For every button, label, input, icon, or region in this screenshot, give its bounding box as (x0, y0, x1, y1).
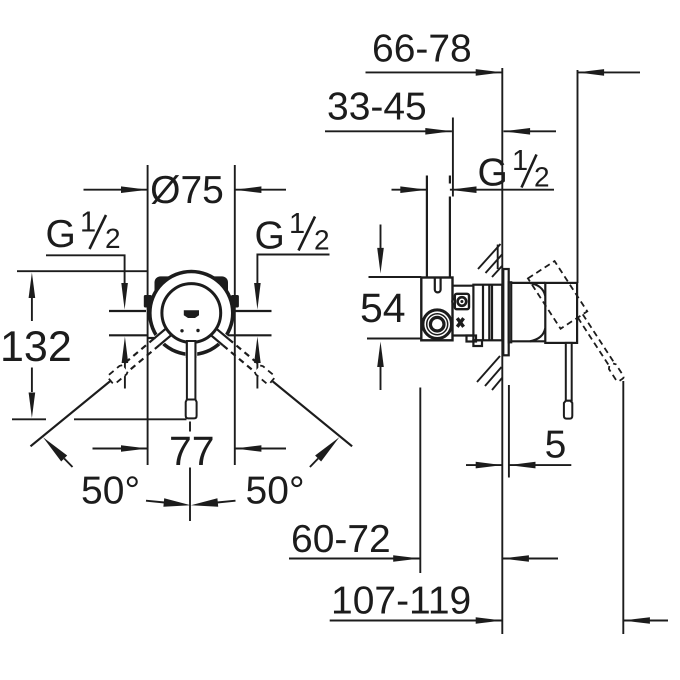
stop screw circle (458, 297, 467, 306)
escutcheon inner circle (162, 284, 221, 343)
svg-text:G: G (255, 215, 285, 258)
dim Ø75 right arrow (235, 186, 286, 193)
lever channel right 50 (208, 326, 229, 347)
dim 132 bottom extension line (12, 418, 187, 420)
svg-text:1: 1 (512, 145, 528, 177)
dim G1/2 pipe left arrow (392, 186, 427, 193)
stop screw square (455, 294, 469, 309)
dim G1/2 pipe right arrow (450, 186, 554, 193)
svg-text:G: G (46, 213, 76, 256)
stop screw dot (460, 300, 463, 303)
angle 50 text left (81, 469, 140, 512)
svg-text:77: 77 (169, 428, 215, 474)
port up arrow left (122, 337, 129, 389)
dim 66-78 right arrow (578, 69, 641, 76)
lever channel left 50 (153, 326, 174, 347)
tube flange line 2 (488, 285, 490, 341)
dim 60-72 extension line (419, 388, 421, 574)
plate front extension line (508, 385, 510, 478)
label G1/2 side text (478, 145, 550, 195)
svg-text:107-119: 107-119 (331, 580, 471, 623)
cartridge mid section bottom (453, 334, 474, 336)
cartridge tube (473, 285, 502, 341)
dim 33-45 left arrow (325, 128, 452, 135)
angle ray right (273, 381, 353, 446)
outlet pipe (427, 176, 450, 278)
svg-text:2: 2 (105, 223, 121, 254)
cartridge center mark (184, 310, 199, 318)
x marking (457, 318, 463, 327)
rough-in box (421, 278, 452, 341)
lever grip (side) (564, 401, 572, 419)
svg-text:1: 1 (80, 207, 96, 239)
mounting bracket (black, behind escutcheon) (155, 276, 229, 310)
dim 60-72 left arrow (289, 555, 420, 562)
svg-text:°: ° (289, 469, 305, 512)
label G1/2 right text (255, 208, 330, 258)
dashed handle block (raised position) (528, 261, 629, 392)
center line below lever (189, 422, 191, 522)
svg-text:5: 5 (545, 424, 567, 467)
dim 132 top extension line (17, 270, 148, 272)
port silhouette line lower-right (228, 334, 272, 336)
trim sleeve (509, 282, 512, 342)
dim 107-119 left arrow (330, 617, 503, 624)
index dot left (180, 329, 183, 332)
escutcheon plate (side) (503, 269, 508, 355)
dim 66-78 right extension line (577, 70, 579, 283)
dim 54 bottom extension line (367, 338, 421, 340)
angle 50 arrows at centerline (146, 498, 236, 506)
dim 5 left arrow (466, 462, 502, 469)
dim Ø75 right extension line (234, 165, 236, 465)
svg-text:33-45: 33-45 (327, 86, 427, 129)
svg-text:132: 132 (0, 323, 72, 371)
port silhouette line upper-left (109, 310, 146, 312)
tube bottom tab (473, 340, 482, 346)
dim 54 arrows (377, 225, 384, 391)
index dot right (196, 329, 199, 332)
dim 54 top extension line (369, 276, 422, 278)
handle body bottom edge (511, 340, 545, 342)
handle front block (545, 283, 577, 343)
wall hatch lower (477, 356, 502, 390)
angle leader arrow right (310, 437, 339, 467)
cartridge mid section top (453, 285, 474, 287)
handle neck curve top (530, 283, 545, 296)
port silhouette line lower-left (109, 334, 148, 336)
stop screw boss bump (452, 299, 458, 305)
svg-text:50: 50 (81, 469, 124, 512)
svg-text:2: 2 (534, 162, 550, 193)
dim 5 right arrow (509, 462, 571, 469)
dim Ø75 left extension line (147, 165, 149, 465)
dim 107-119 right arrow (623, 617, 668, 624)
wall hatch upper (478, 244, 502, 277)
angle leader arrow left (43, 437, 73, 467)
dim Ø75 left arrow (84, 186, 148, 193)
mounting lug left (144, 295, 152, 308)
tube flange line 1 (482, 285, 484, 341)
label G1/2 left leader (46, 255, 128, 309)
svg-text:°: ° (125, 469, 141, 512)
handle neck curve bottom (530, 328, 545, 341)
dashed lever right 50 (222, 338, 275, 385)
label G1/2 right leader (254, 255, 329, 310)
handle body top edge (511, 282, 545, 284)
port silhouette line upper-right (235, 310, 272, 312)
wall line (501, 68, 503, 634)
port up arrow right (254, 337, 261, 389)
escutcheon outer circle (150, 272, 233, 355)
dim 77 left arrow (93, 445, 148, 452)
mounting lug right (231, 295, 239, 308)
box screw slot (435, 278, 441, 293)
svg-text:54: 54 (360, 285, 406, 331)
lever shaft (front view) (187, 341, 196, 400)
label G1/2 left text (46, 207, 121, 257)
angle 50 text right (246, 469, 305, 512)
dim 77 right arrow (235, 445, 286, 452)
inlet port rings (423, 310, 452, 339)
handle tip extension line (622, 381, 624, 634)
angle ray left (31, 381, 111, 446)
svg-text:66-78: 66-78 (372, 28, 472, 71)
svg-text:50: 50 (246, 469, 289, 512)
lever channel down (mask + edges) (185, 340, 197, 358)
lever shaft (side) (566, 343, 572, 401)
svg-text:1: 1 (289, 208, 305, 240)
svg-text:60-72: 60-72 (291, 518, 391, 561)
lever grip (front view) (186, 400, 197, 419)
dim 66-78 left arrow (366, 69, 503, 76)
dim 33-45 right arrow (504, 128, 557, 135)
tube flange line 3 (491, 285, 493, 341)
svg-text:G: G (478, 152, 508, 195)
port silhouette line lower-left stub (148, 337, 156, 339)
dim 60-72 right arrow (502, 555, 558, 562)
dim 132 vertical line with arrows (29, 273, 36, 419)
svg-text:2: 2 (314, 225, 330, 256)
svg-text:Ø75: Ø75 (150, 169, 224, 212)
mid step tab (467, 336, 477, 342)
dim 33-45 extension line (452, 118, 454, 197)
dashed lever left 50 (107, 338, 160, 385)
